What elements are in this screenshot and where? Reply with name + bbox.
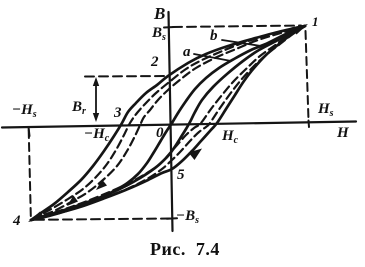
label 4 xyxy=(13,213,21,230)
arrowhead on dashed loop lower-left 1 xyxy=(96,180,107,191)
tick Bs on B axis xyxy=(164,26,174,29)
initial magnetization curve mirror 0 to 4 xyxy=(31,123,172,220)
arrowhead on lower branch near 5 xyxy=(189,149,203,161)
dashed minor loop (outer) upper branch xyxy=(31,26,305,220)
major loop lower branch 4-5-1 xyxy=(31,26,305,220)
arrowhead at point 4 xyxy=(28,212,45,223)
dashed guide point 4 to -Bs on B axis xyxy=(35,219,171,220)
label H xyxy=(337,125,349,142)
caption xyxy=(150,239,220,260)
label Br xyxy=(72,99,86,117)
label 2 xyxy=(151,54,159,71)
label Hs xyxy=(318,101,334,119)
arrowhead on dashed loop lower-left 2 xyxy=(67,196,78,207)
pointer line from label b to curve xyxy=(222,40,261,46)
label -Hs xyxy=(12,102,37,120)
B axis xyxy=(169,12,173,231)
dashed minor loop (inner) lower branch xyxy=(31,26,305,220)
dashed minor loop (outer) lower branch xyxy=(31,26,305,220)
label -Bs xyxy=(176,208,199,226)
H axis xyxy=(2,122,356,128)
label -Hc xyxy=(84,126,109,144)
label 5 xyxy=(177,167,185,184)
label Hc xyxy=(222,128,238,146)
dashed guide Br level xyxy=(85,75,167,78)
major loop upper branch 1-2-3-4 xyxy=(31,26,305,220)
tick -Bs on B axis xyxy=(167,217,177,220)
tick Hs on H axis xyxy=(308,121,311,128)
Br measuring arrow (double-headed) xyxy=(95,80,97,119)
label B xyxy=(154,4,165,24)
pointer line from label a to curve xyxy=(194,54,231,61)
commutation curve b from 4 to 1 xyxy=(31,26,305,220)
dashed minor loop (inner) upper branch xyxy=(31,26,305,220)
label 1 xyxy=(312,14,319,30)
arrowhead at point 1 xyxy=(291,24,308,35)
dashed guide -Hs down to point 4 xyxy=(29,130,31,216)
dashed guide point 1 down to H axis xyxy=(306,31,309,120)
tick -Hs on H axis xyxy=(29,127,30,136)
label 0 xyxy=(156,125,164,142)
label Bs xyxy=(152,25,166,43)
label 3 xyxy=(114,105,122,122)
initial magnetization curve 0 to 1 (curve a) xyxy=(172,26,305,123)
dashed guide Bs level to point 1 xyxy=(173,26,301,28)
label b xyxy=(210,28,218,45)
label a xyxy=(183,44,191,61)
